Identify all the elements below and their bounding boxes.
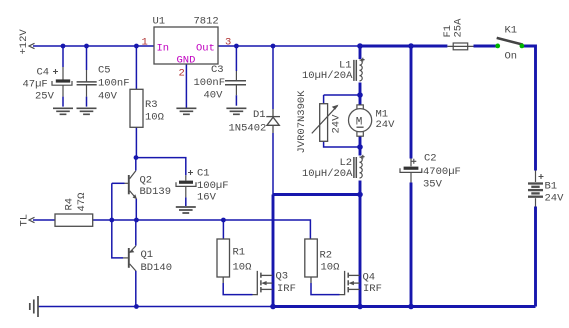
svg-text:100nF: 100nF bbox=[194, 77, 226, 89]
svg-text:C4: C4 bbox=[37, 67, 50, 79]
svg-text:Q3: Q3 bbox=[276, 271, 289, 283]
svg-text:24V: 24V bbox=[376, 119, 396, 131]
svg-text:10Ω: 10Ω bbox=[321, 262, 340, 274]
svg-text:10µH/20A: 10µH/20A bbox=[302, 168, 353, 180]
svg-text:JVR07N390K: JVR07N390K bbox=[296, 90, 308, 154]
svg-text:25A: 25A bbox=[453, 18, 465, 38]
svg-text:C3: C3 bbox=[211, 64, 224, 76]
svg-text:100µF: 100µF bbox=[197, 180, 229, 192]
svg-text:Q1: Q1 bbox=[141, 249, 154, 261]
svg-text:1N5402: 1N5402 bbox=[229, 123, 267, 135]
svg-text:47Ω: 47Ω bbox=[76, 193, 88, 212]
svg-text:+12V: +12V bbox=[18, 29, 30, 55]
svg-text:U1: U1 bbox=[153, 16, 166, 28]
svg-text:R4: R4 bbox=[64, 198, 76, 211]
svg-text:24V: 24V bbox=[545, 193, 565, 205]
svg-text:IRF: IRF bbox=[363, 283, 382, 295]
svg-text:40V: 40V bbox=[98, 91, 118, 103]
svg-text:7812: 7812 bbox=[194, 16, 219, 28]
svg-text:In: In bbox=[157, 43, 170, 55]
svg-text:47µF: 47µF bbox=[23, 79, 48, 91]
svg-text:3: 3 bbox=[225, 37, 231, 49]
svg-text:24V: 24V bbox=[331, 114, 343, 134]
svg-text:Out: Out bbox=[196, 43, 215, 55]
svg-text:Q4: Q4 bbox=[363, 272, 376, 284]
svg-text:R3: R3 bbox=[145, 99, 158, 111]
svg-text:Q2: Q2 bbox=[140, 175, 153, 187]
svg-text:10µH/20A: 10µH/20A bbox=[302, 70, 353, 82]
svg-text:C2: C2 bbox=[424, 153, 437, 165]
svg-text:10Ω: 10Ω bbox=[233, 262, 252, 274]
svg-text:1: 1 bbox=[142, 37, 148, 49]
svg-text:BD140: BD140 bbox=[141, 262, 173, 274]
svg-text:4700µF: 4700µF bbox=[423, 166, 461, 178]
svg-text:2: 2 bbox=[179, 68, 185, 80]
svg-text:R1: R1 bbox=[233, 247, 246, 259]
svg-text:GND: GND bbox=[177, 55, 196, 67]
svg-text:On: On bbox=[505, 51, 518, 63]
svg-text:10Ω: 10Ω bbox=[145, 112, 164, 124]
svg-text:35V: 35V bbox=[423, 179, 443, 191]
svg-text:R2: R2 bbox=[320, 250, 333, 262]
svg-text:K1: K1 bbox=[505, 25, 518, 37]
svg-text:D1: D1 bbox=[253, 109, 266, 121]
svg-text:TL: TL bbox=[19, 214, 31, 227]
svg-text:16V: 16V bbox=[197, 192, 217, 204]
svg-text:25V: 25V bbox=[35, 91, 55, 103]
svg-text:B1: B1 bbox=[545, 181, 558, 193]
svg-text:C1: C1 bbox=[197, 168, 210, 180]
svg-text:100nF: 100nF bbox=[98, 78, 130, 90]
svg-text:C5: C5 bbox=[98, 65, 111, 77]
svg-text:BD139: BD139 bbox=[140, 186, 172, 198]
svg-text:IRF: IRF bbox=[277, 283, 296, 295]
svg-text:40V: 40V bbox=[204, 90, 224, 102]
